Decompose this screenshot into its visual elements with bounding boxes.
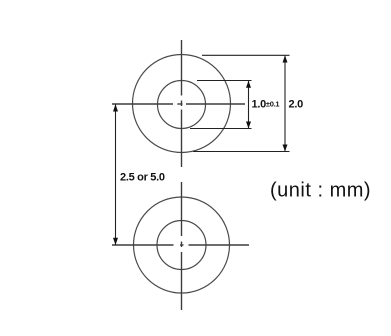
extension line inner bottom (190, 128, 252, 130)
arrow down (2.0 dim) (283, 145, 288, 152)
extension line inner top (197, 80, 252, 82)
pad P2 vertical centerline (181, 182, 183, 310)
pad P2 horizontal centerline (112, 244, 249, 246)
pad P2 outer circle (2.0 dia) (134, 197, 230, 293)
pad P1 inner circle (1.0 dia) (158, 81, 206, 129)
dimension line 2.0 dia (284, 56, 286, 152)
svg-text:2.5 or 5.0: 2.5 or 5.0 (120, 172, 165, 184)
extension line outer bottom (193, 151, 290, 153)
arrow up (pitch dim, top) (113, 104, 118, 111)
arrow down (1.0 dim) (246, 122, 251, 129)
pad P1 horizontal centerline (112, 103, 245, 105)
dimension line pitch 2.5 or 5.0 (115, 105, 117, 246)
dimension line 1.0 dia (248, 81, 250, 129)
arrow down (pitch dim, bottom) (113, 238, 118, 245)
pad P1 outer circle (2.0 dia) (133, 55, 231, 153)
pad P1 vertical centerline (181, 40, 183, 167)
extension line outer top (202, 54, 290, 56)
svg-text:2.0: 2.0 (289, 99, 304, 111)
pad P2 inner circle (1.0 dia) (157, 221, 206, 270)
svg-text:(unit : mm): (unit : mm) (270, 180, 371, 202)
arrow up (1.0 dim) (246, 81, 251, 88)
arrow up (2.0 dim) (283, 56, 288, 63)
